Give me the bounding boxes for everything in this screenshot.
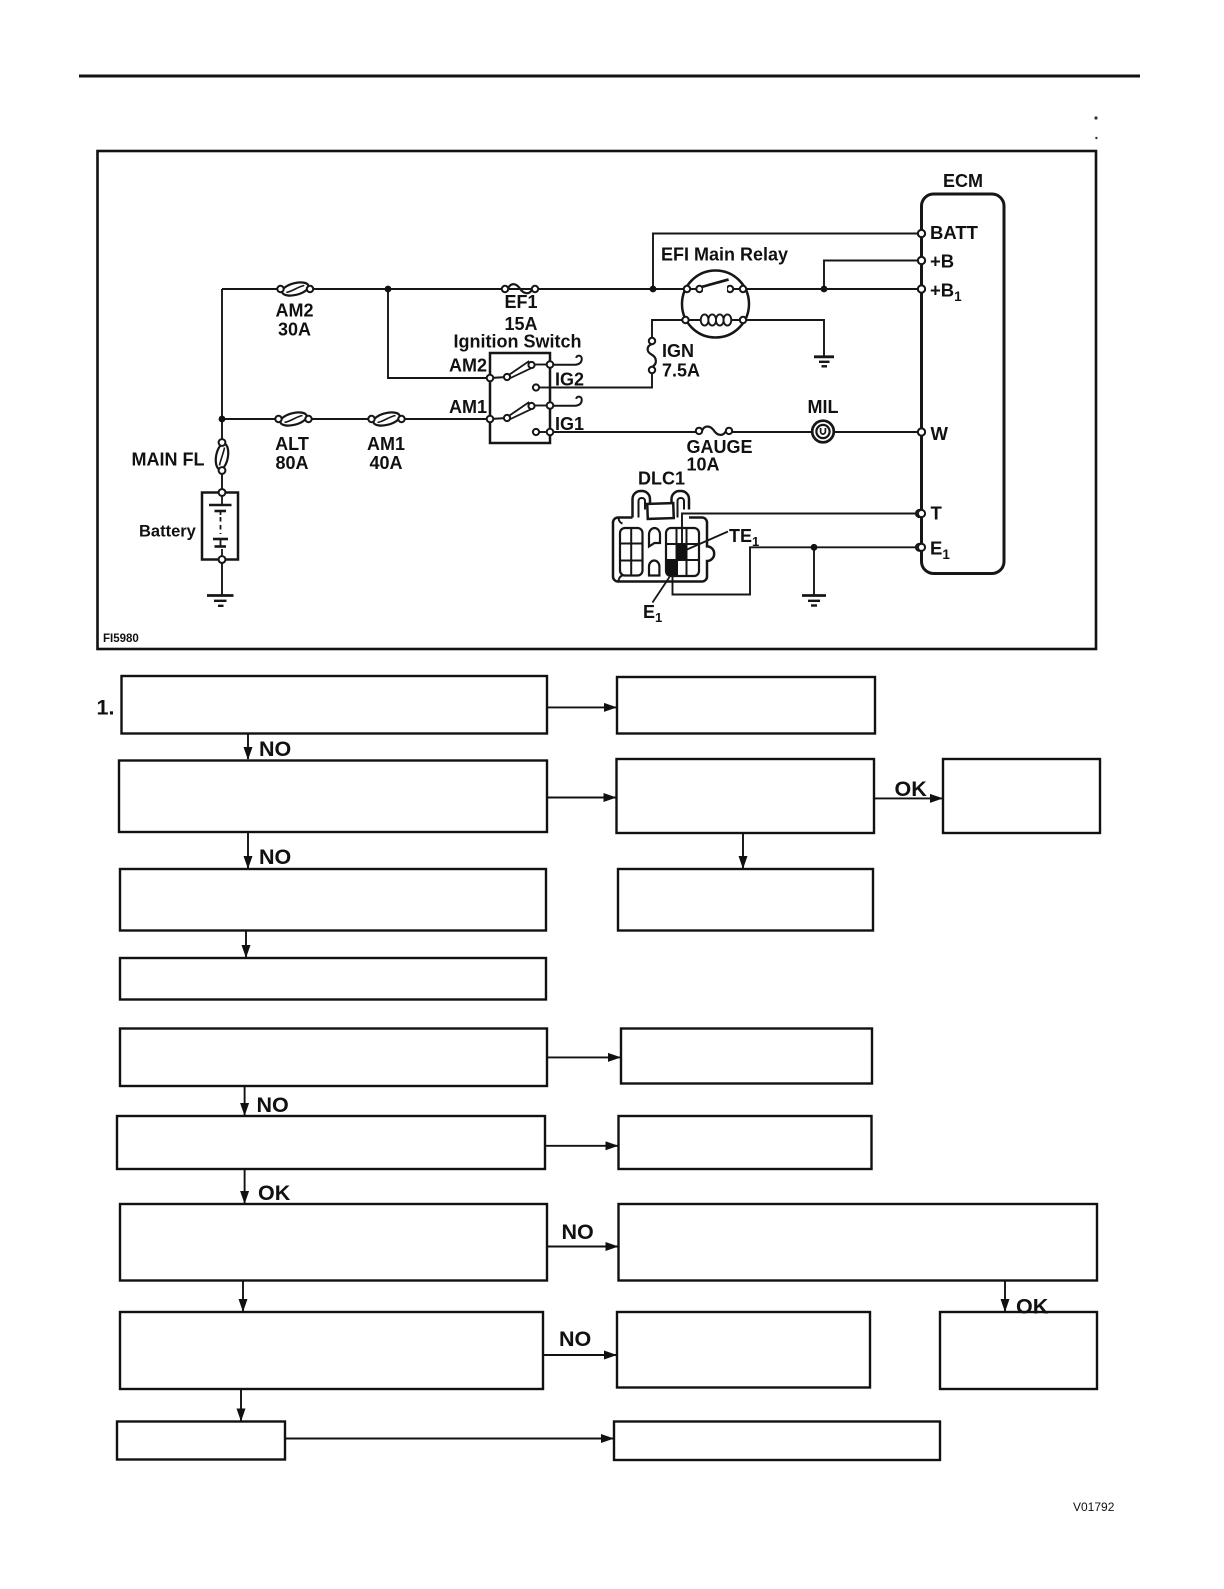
svg-text:MIL: MIL (808, 397, 839, 417)
svg-text:EF1: EF1 (504, 292, 537, 312)
svg-text:OK: OK (895, 777, 928, 801)
svg-text:OK: OK (258, 1181, 291, 1205)
svg-text:V01792: V01792 (1073, 1500, 1115, 1514)
svg-text:IG2: IG2 (555, 370, 584, 390)
svg-text:W: W (931, 423, 949, 444)
svg-text:NO: NO (559, 1327, 591, 1351)
svg-text:ECM: ECM (943, 171, 983, 191)
svg-text:FI5980: FI5980 (103, 633, 139, 645)
svg-text:NO: NO (259, 737, 291, 761)
svg-text:AM1: AM1 (449, 397, 487, 417)
svg-text:AM1: AM1 (367, 434, 405, 454)
svg-text:80A: 80A (275, 453, 308, 473)
svg-text:30A: 30A (278, 320, 311, 340)
svg-text:10A: 10A (687, 455, 720, 475)
svg-text:Ignition Switch: Ignition Switch (454, 332, 582, 352)
svg-text:BATT: BATT (930, 222, 979, 243)
svg-text:1.: 1. (97, 696, 115, 720)
svg-text:NO: NO (259, 845, 291, 869)
svg-text:ALT: ALT (275, 434, 309, 454)
svg-text:+B1: +B1 (930, 280, 962, 305)
svg-text:EFI Main Relay: EFI Main Relay (661, 245, 788, 265)
svg-text:T: T (931, 503, 943, 524)
svg-text:+B: +B (930, 251, 954, 272)
svg-text:7.5A: 7.5A (662, 361, 700, 381)
svg-text:40A: 40A (369, 453, 402, 473)
svg-text:MAIN FL: MAIN FL (132, 450, 205, 470)
svg-text:AM2: AM2 (275, 301, 313, 321)
svg-text:DLC1: DLC1 (638, 469, 685, 489)
svg-text:E1: E1 (643, 602, 662, 625)
svg-text:E1: E1 (930, 538, 950, 563)
svg-text:TE1: TE1 (729, 526, 759, 549)
svg-text:Battery: Battery (139, 523, 197, 541)
svg-text:IGN: IGN (662, 341, 694, 361)
svg-text:AM2: AM2 (449, 356, 487, 376)
svg-text:NO: NO (257, 1093, 289, 1117)
svg-text:OK: OK (1016, 1295, 1049, 1319)
svg-text:NO: NO (562, 1220, 594, 1244)
svg-text:IG1: IG1 (555, 414, 584, 434)
